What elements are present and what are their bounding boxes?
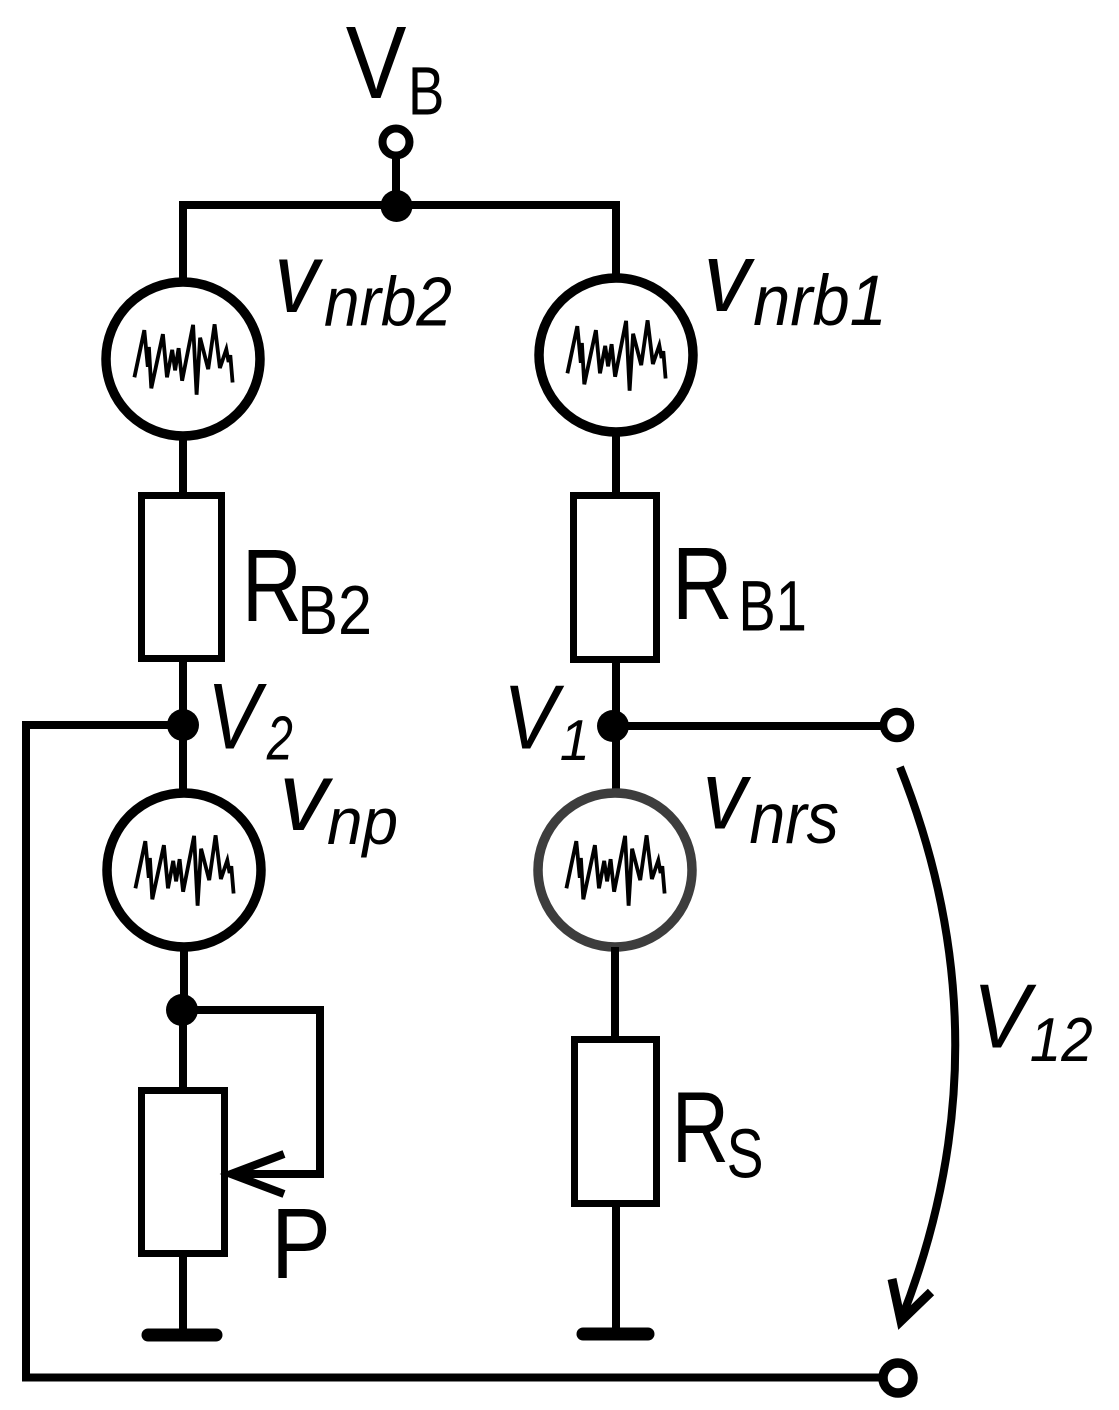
noise source vnrb1 [539,278,693,432]
node V1 [597,710,629,742]
ground left [148,1329,216,1342]
svg-text:v: v [703,222,755,332]
terminal VB [383,129,410,156]
svg-text:v: v [279,741,333,851]
resistor RS [575,1040,657,1204]
svg-text:v: v [274,223,323,334]
wire RS to ground [612,1203,620,1332]
arc V12 [900,767,955,1320]
svg-text:B1: B1 [738,568,807,647]
svg-text:S: S [727,1115,764,1193]
svg-text:V: V [973,967,1037,1068]
node V2 [167,709,199,741]
wire P to ground [179,1253,187,1333]
wire vnrb2 to RB2 [179,436,187,496]
svg-text:V: V [346,5,407,120]
wire RB2 to vnp [179,658,187,795]
svg-text:nrb1: nrb1 [753,262,887,341]
svg-text:P: P [271,1188,331,1300]
wire vnrs to RS [611,947,619,1042]
svg-text:R: R [672,526,733,641]
ground right [583,1328,648,1341]
wire vnp to wiper node [180,947,188,1010]
wire wiper node to P [179,1010,187,1094]
arrowhead V12 [892,1279,931,1321]
wire V2 left [22,721,183,729]
svg-text:nrb2: nrb2 [324,263,452,341]
svg-text:v: v [703,741,752,850]
junction node VB [381,190,413,222]
wire bottom rail [22,1374,883,1382]
svg-text:R: R [672,1071,729,1184]
wire wiper loop [186,1010,320,1174]
svg-text:V: V [207,664,267,769]
svg-text:B: B [408,52,444,130]
wire vnrb1 to RB1 [612,432,620,496]
wire top bus [183,205,616,285]
noise source vnrb2 [106,282,260,436]
svg-text:B2: B2 [297,571,372,649]
svg-text:R: R [242,528,302,643]
resistor RB2 [142,496,222,659]
potentiometer P [142,1091,225,1254]
wire VB stub [392,155,400,206]
wire V1 to terminal [613,722,883,730]
resistor RB1 [574,496,657,660]
wire RB1 to vnrs [612,659,620,795]
junction node wiper [166,994,198,1026]
noise source vnrs [538,793,692,947]
svg-text:V: V [503,667,565,769]
noise source vnp [107,793,261,947]
terminal V1 [884,712,911,739]
svg-text:1: 1 [560,709,590,773]
svg-text:nrs: nrs [749,779,839,859]
svg-text:np: np [327,785,398,858]
terminal bottom right [883,1363,913,1393]
wire left rail [22,721,30,1377]
wiper arrow of P [231,1154,284,1194]
svg-text:12: 12 [1030,1006,1093,1075]
